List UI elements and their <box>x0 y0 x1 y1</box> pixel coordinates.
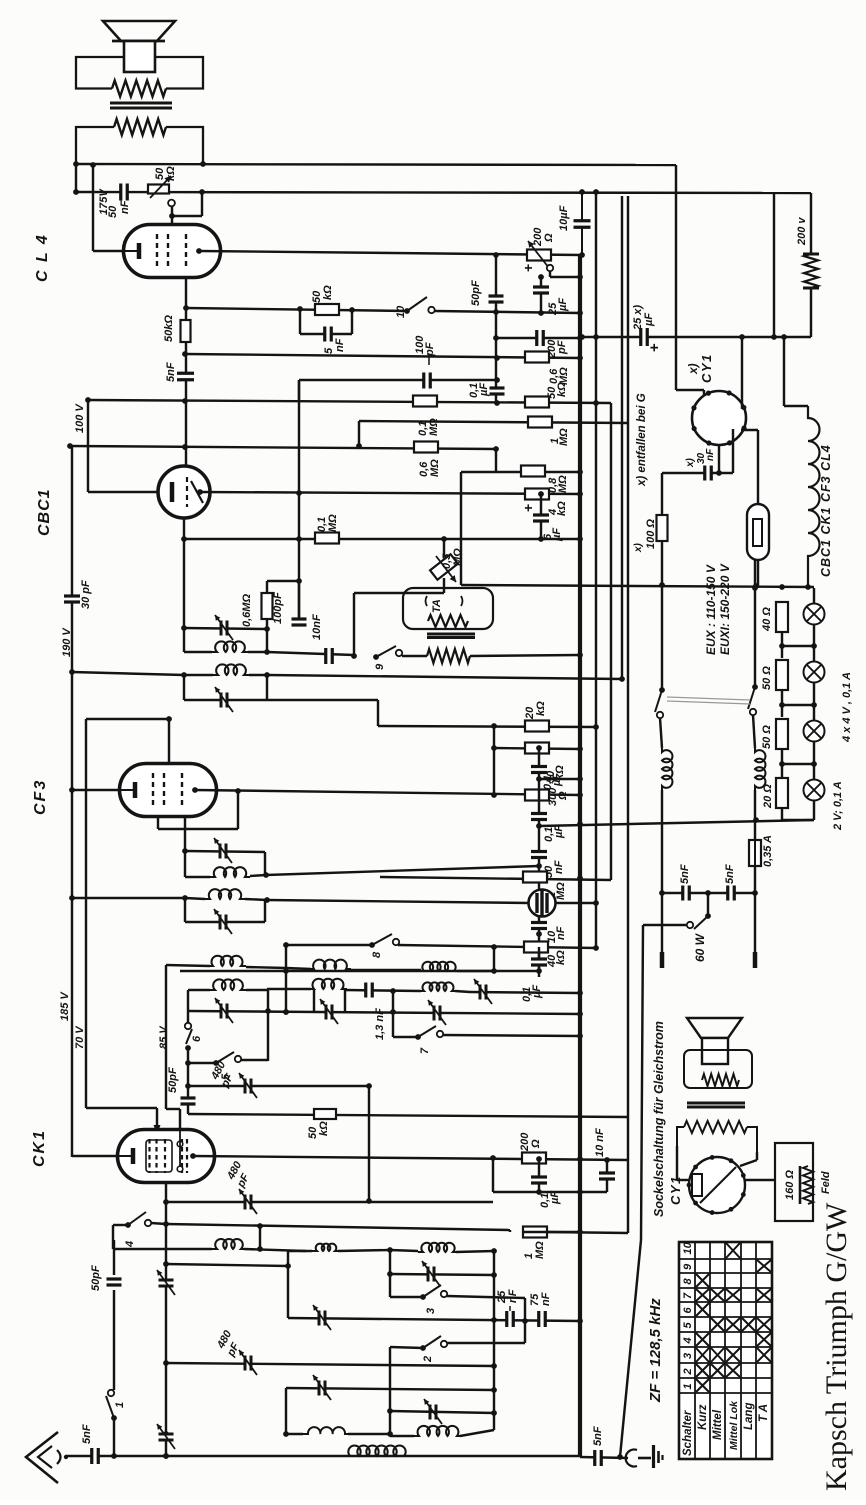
tuning trimmer C2 <box>327 1005 331 1020</box>
resistor 50kOhm cathode <box>181 320 191 342</box>
resistor 100 Ohm x) <box>661 473 663 688</box>
svg-text:nF: nF <box>540 1292 552 1306</box>
switch table frame <box>679 1242 772 1459</box>
potentiometer 0,5MOhm <box>441 536 447 542</box>
svg-text:50 Ω: 50 Ω <box>761 725 773 749</box>
svg-text:5nF: 5nF <box>679 864 691 884</box>
wire 100V x=88 <box>87 400 89 492</box>
row 50k y=1114 <box>188 1114 628 1117</box>
wire bus x=628 <box>627 196 629 1233</box>
row 20k y=726 <box>378 726 596 727</box>
svg-text:kΩ: kΩ <box>165 166 177 181</box>
row y=312 to rail <box>435 311 580 313</box>
svg-text:4 x 4 V , 0,1 A: 4 x 4 V , 0,1 A <box>841 672 853 743</box>
capacitor 50pF antenna <box>113 1290 115 1390</box>
wire line A <box>75 164 77 193</box>
IF transformer 2 bottom tuning cap <box>184 699 267 701</box>
tuning trimmer C3 <box>435 1006 439 1021</box>
capacitor 50pF osc <box>181 1099 196 1103</box>
row y=1411 <box>431 1405 435 1420</box>
svg-text:5nF: 5nF <box>165 362 177 382</box>
capacitor 5nF mains a <box>684 886 688 901</box>
capacitor 50nF <box>531 853 547 857</box>
lamp 1 <box>813 588 815 604</box>
row 190V y=675 <box>72 672 184 675</box>
svg-text:100pF: 100pF <box>272 592 284 624</box>
svg-text:CY1: CY1 <box>699 353 714 383</box>
svg-text:kΩ: kΩ <box>556 501 568 516</box>
svg-text:nF: nF <box>334 338 346 352</box>
potentiometer 200 Ohm <box>527 250 551 261</box>
wire x=286 upper <box>285 945 287 1012</box>
wire CK1 bottom x=166 <box>165 1183 167 1456</box>
wire x=390 lower <box>389 1347 391 1434</box>
svg-text:Feld: Feld <box>820 1171 832 1194</box>
svg-text:0,35 A: 0,35 A <box>762 835 774 867</box>
svg-text:5nF: 5nF <box>81 1424 93 1444</box>
wire CY1 right to 337 <box>741 337 743 409</box>
inset field loop <box>677 1127 757 1152</box>
resistor 300 Ohm <box>525 790 549 801</box>
resistor 0,6MOhm <box>525 352 549 363</box>
svg-text:MΩ: MΩ <box>558 428 570 446</box>
svg-text:5nF: 5nF <box>724 864 736 884</box>
svg-text:µF: µF <box>478 383 490 397</box>
resistor 40 Ohm <box>776 602 788 632</box>
svg-text:70 V: 70 V <box>74 1025 86 1049</box>
row y=779 <box>539 778 580 780</box>
row y=446 0,6M <box>70 446 496 449</box>
IF transformer 1 loop <box>183 628 185 652</box>
row 5nF y=893 <box>662 892 755 894</box>
svg-text:+: + <box>646 343 663 352</box>
pickup TA bubble <box>403 588 493 629</box>
osc coil L2c <box>390 1435 414 1437</box>
wire x=299 bus <box>298 380 300 625</box>
svg-text:10µF: 10µF <box>558 205 570 231</box>
capacitor 10nF ladder <box>531 924 547 928</box>
svg-text:T A: T A <box>758 1404 770 1422</box>
node 200V row y=337 <box>582 336 811 338</box>
resistor winding primary <box>112 81 166 97</box>
svg-text:2: 2 <box>422 1356 434 1363</box>
switch 9 <box>373 654 379 660</box>
row y=1192 <box>493 1191 607 1193</box>
svg-text:50kΩ: 50kΩ <box>163 315 175 342</box>
wire x=461 down to mains row <box>460 472 462 585</box>
wire link from IFT2 <box>267 699 378 701</box>
svg-text:5nF: 5nF <box>592 1426 604 1446</box>
svg-text:MΩ: MΩ <box>558 367 570 385</box>
IF transformer 3 coil B <box>185 898 205 899</box>
tuning capacitor 480pF main <box>246 1356 250 1371</box>
svg-text:nF: nF <box>553 860 565 874</box>
row trimmer y=1274 <box>390 1274 494 1275</box>
wire 200V feed x=774 <box>773 193 775 337</box>
svg-text:100 Ω: 100 Ω <box>645 519 657 549</box>
mains plug b <box>754 893 756 952</box>
tube CL4 <box>124 225 221 278</box>
svg-text:Mittel: Mittel <box>712 1409 724 1440</box>
capacitor 200pF <box>538 330 542 346</box>
mains switch b <box>754 560 756 687</box>
svg-text:pF: pF <box>556 340 568 355</box>
resistor 40kOhm <box>524 942 548 953</box>
svg-text:0,6MΩ: 0,6MΩ <box>241 594 253 627</box>
transformer core <box>110 102 172 105</box>
lamp 2 <box>804 662 825 683</box>
antenna <box>26 1432 58 1483</box>
speaker <box>103 21 175 41</box>
wire cap column x=539 <box>538 748 540 977</box>
resistor 0,6MOhm second <box>414 442 438 453</box>
fuse 0,35A <box>754 812 756 840</box>
wire x=113 to coil <box>112 1225 114 1249</box>
wire bus x=596 <box>595 192 597 948</box>
wire EUX bottom <box>757 560 759 588</box>
capacitor 75nF <box>540 1311 544 1327</box>
antenna coil <box>345 1446 409 1456</box>
resistor 1MOhm osc grid <box>523 1227 547 1238</box>
wire CK1 anode row y=1157 <box>193 1156 628 1160</box>
svg-text:kΩ: kΩ <box>556 382 568 397</box>
svg-text:+: + <box>520 264 536 272</box>
mains switch a <box>661 688 663 692</box>
capacitor 0,1uF a <box>531 768 547 772</box>
row 70V y=1108 <box>86 1107 157 1109</box>
wire x=390 osc <box>389 1250 391 1297</box>
IF transformer 3 bottom tuning cap <box>185 921 265 923</box>
row AVC y=402 <box>88 400 611 403</box>
wire bus x=622 <box>621 196 623 679</box>
row 1M y=421 <box>359 421 628 423</box>
wire x=369 <box>368 1086 370 1201</box>
lamp 4 <box>804 780 825 801</box>
wire line B <box>76 192 811 193</box>
svg-text:MΩ: MΩ <box>534 1241 546 1259</box>
capacitor 10nF osc <box>606 1160 608 1192</box>
svg-text:10 nF: 10 nF <box>594 1128 606 1157</box>
wire CF3 cathode lead <box>72 789 119 791</box>
tube CK1 <box>118 1130 215 1183</box>
IF transformer 3 loop B <box>184 898 186 922</box>
wire x=496 to 0,8M row <box>495 449 497 472</box>
svg-text:8: 8 <box>682 1278 694 1285</box>
row 480pF main y=1363 <box>166 1363 494 1366</box>
band coil A1 <box>166 965 210 966</box>
rung y=646 <box>782 645 814 647</box>
capacitor 0,1uF c <box>538 947 540 971</box>
svg-text:Sockelschaltung für Gleichstro: Sockelschaltung für Gleichstrom <box>652 1021 666 1217</box>
svg-text:160 Ω: 160 Ω <box>784 1170 796 1200</box>
wire CF3 anode row y=792 <box>195 790 580 795</box>
svg-text:50pF: 50pF <box>90 1265 102 1291</box>
capacitor 5nF to ground <box>580 1457 628 1458</box>
inset zigzag primary <box>702 1074 739 1086</box>
svg-text:Ω: Ω <box>543 233 555 243</box>
mains choke b <box>753 715 755 748</box>
capacitor 5nF mains b <box>729 886 733 901</box>
svg-text:Kapsch Triumph G/GW: Kapsch Triumph G/GW <box>820 1202 853 1491</box>
inset wires to socket <box>676 1146 678 1180</box>
svg-text:EUXI: 150-220 V: EUXI: 150-220 V <box>718 563 732 655</box>
row 200pF y=338 <box>496 337 580 339</box>
switch 2 <box>420 1345 426 1351</box>
svg-text:10: 10 <box>395 305 407 318</box>
svg-text:Schalter: Schalter <box>682 1410 694 1456</box>
resistor winding secondary <box>114 119 166 135</box>
IF transformer 3 loop A <box>184 851 186 877</box>
row 40k switch8 y=947 <box>398 945 596 948</box>
gang capacitor section I <box>159 1281 174 1285</box>
switch 60W <box>707 893 709 914</box>
resistor 50 Ohm a <box>776 660 788 690</box>
svg-text:TA: TA <box>431 599 443 613</box>
wire loop x=288 <box>288 1250 312 1252</box>
rung bottom y=820 <box>781 808 783 820</box>
svg-text:3: 3 <box>682 1353 694 1359</box>
svg-text:Kurz: Kurz <box>697 1404 709 1430</box>
capacitor 0,1uF at x=497 <box>490 389 505 393</box>
svg-text:MΩ: MΩ <box>327 514 339 532</box>
inset output loop <box>684 1050 752 1088</box>
tuning trimmer C1 <box>222 1004 226 1019</box>
svg-text:C L 4: C L 4 <box>34 233 51 282</box>
IF transformer 2 coil <box>184 674 213 676</box>
svg-text:Ω: Ω <box>557 791 569 801</box>
mains plug a <box>661 893 663 952</box>
loop C1 <box>187 990 189 1011</box>
resistor 0,8MOhm <box>521 466 545 477</box>
svg-text:CF3: CF3 <box>32 779 49 815</box>
resistor 1MOhm grid <box>528 417 552 428</box>
wire CBC1 cathode lead <box>88 491 158 493</box>
svg-text:+: + <box>520 504 536 512</box>
IF transformer 1 coil <box>184 651 212 653</box>
wire CY1 feed x=676 <box>675 165 677 390</box>
resistor 1MOhm diode load <box>523 872 547 883</box>
capacitor 25nF <box>508 1311 512 1327</box>
resistor 200 Ohm osc <box>522 1153 546 1164</box>
resistor 0,1MOhm <box>413 396 437 407</box>
row 50k y=748 <box>494 748 580 749</box>
svg-text:7: 7 <box>682 1292 694 1299</box>
row 480pF II y=1202 <box>166 1201 493 1203</box>
svg-text:9: 9 <box>682 1263 694 1270</box>
svg-text:nF: nF <box>705 448 716 461</box>
svg-text:5: 5 <box>682 1322 694 1329</box>
wire 175V feed <box>92 165 94 251</box>
svg-text:6: 6 <box>191 1035 203 1042</box>
switch 3 <box>420 1294 426 1300</box>
rung y=705 <box>782 704 814 706</box>
svg-text:1: 1 <box>682 1383 694 1389</box>
wire CY1 top feed <box>676 389 704 391</box>
resistor 0,6MOhm IFT feed <box>267 580 299 582</box>
svg-text:kΩ: kΩ <box>318 1121 330 1136</box>
inset CY1 socket <box>689 1157 745 1213</box>
svg-text:CBC1: CBC1 <box>36 488 53 536</box>
svg-text:50pF: 50pF <box>470 280 482 306</box>
capacitor 30nF x) <box>662 472 733 474</box>
table row lines <box>694 1242 696 1459</box>
wire AVC bus x=611 <box>610 403 612 880</box>
wire CY1 to EUX <box>741 429 758 431</box>
svg-text:20 Ω: 20 Ω <box>762 784 774 809</box>
svg-text:MΩ: MΩ <box>452 548 464 566</box>
svg-text:kΩ: kΩ <box>555 950 567 965</box>
wire CF3 grid <box>168 719 170 765</box>
resistor 50 Ohm b <box>776 719 788 749</box>
wire heater feed x=784 <box>783 337 785 406</box>
tube EUX barretter <box>747 504 769 560</box>
svg-text:x): x) <box>686 363 700 375</box>
trimmer in row B <box>470 992 580 993</box>
wire bank bus x=494 <box>493 1251 495 1430</box>
svg-text:10nF: 10nF <box>311 614 323 640</box>
loop C2 <box>313 989 315 1012</box>
switch 1 <box>113 1418 115 1456</box>
svg-text:50pF: 50pF <box>167 1067 179 1093</box>
lamp 3 <box>804 721 825 742</box>
switch 5 <box>213 1060 219 1066</box>
svg-text:7: 7 <box>419 1047 431 1054</box>
svg-text:µF: µF <box>643 313 655 327</box>
row 1M y=878 <box>380 877 611 880</box>
inset core <box>687 1102 745 1105</box>
band coil A2 <box>286 968 311 969</box>
inset zigzag field <box>684 1121 747 1133</box>
band coil B3 <box>419 982 457 991</box>
trimmer 480pF osc <box>246 1079 250 1094</box>
svg-text:Lang: Lang <box>743 1403 755 1430</box>
resistor 50kOhm parallel <box>297 306 303 312</box>
IF transformer 3 coil A <box>185 876 210 878</box>
row 0,8M y=472 <box>461 471 580 473</box>
switch 10 <box>404 308 410 314</box>
inset speaker <box>687 1018 742 1038</box>
svg-text:ZF = 128,5 kHz: ZF = 128,5 kHz <box>647 1298 664 1403</box>
pickup zigzag <box>428 615 468 627</box>
svg-text:9: 9 <box>374 663 386 670</box>
svg-text:MΩ: MΩ <box>555 882 567 900</box>
switch 8 <box>369 942 375 948</box>
wire left x=72 long <box>71 446 73 1157</box>
trimmer 480pF II <box>246 1195 250 1210</box>
rectifier CY1 <box>692 391 746 445</box>
wire antenna row y=1456 <box>66 1455 580 1457</box>
wire CBC1 to grid row y=539 <box>183 518 185 539</box>
resistor 50kOhm screen <box>525 743 549 754</box>
capacitor 10uF <box>581 192 583 255</box>
svg-text:100 V: 100 V <box>74 403 86 433</box>
row y=1388 <box>286 1388 494 1390</box>
voice coil <box>124 41 155 72</box>
row y=586 mains top <box>461 585 814 587</box>
svg-text:40 Ω: 40 Ω <box>761 607 773 632</box>
row y=1265 <box>166 1264 288 1266</box>
svg-text:8: 8 <box>371 951 383 958</box>
wire CY1 bottom <box>718 445 720 473</box>
wire x=393 <box>392 991 394 1037</box>
volume core bars <box>427 633 475 636</box>
switch 4 <box>125 1222 131 1228</box>
wire CF3 bottom to IFT3 <box>184 817 186 851</box>
svg-text:kΩ: kΩ <box>535 701 547 716</box>
wire ground bus <box>641 925 643 1240</box>
potentiometer disc <box>529 890 556 917</box>
svg-text:85 V: 85 V <box>158 1025 170 1049</box>
capacitor 50pF <box>495 256 497 312</box>
svg-text:3: 3 <box>425 1308 437 1314</box>
row y=653 to volume <box>267 652 354 655</box>
volume potentiometer winding <box>402 655 427 657</box>
svg-text:4: 4 <box>682 1337 694 1344</box>
capacitor 30pF <box>64 597 80 601</box>
wire x=496 down <box>495 312 497 403</box>
svg-text:x): x) <box>633 542 644 553</box>
wire CL4 anode row <box>199 251 582 255</box>
svg-text:Mittel Lok: Mittel Lok <box>728 1400 740 1450</box>
capacitor 0,1uF osc <box>538 1159 540 1192</box>
svg-text:MΩ: MΩ <box>429 459 441 477</box>
row y=875 to 50nF <box>266 866 539 875</box>
svg-text:pF: pF <box>424 342 436 357</box>
IF transformer 3 top tuning cap <box>185 851 265 852</box>
band coil B2 <box>267 988 311 990</box>
row 0,6M y=357 <box>185 354 580 358</box>
svg-text:Ω: Ω <box>530 1139 542 1149</box>
resistor 20 Ohm <box>776 778 788 808</box>
tube CBC1 <box>158 466 210 518</box>
switch 6 <box>185 1023 191 1029</box>
wire CBC1 anode row y=494 <box>200 492 580 494</box>
svg-text:CK1: CK1 <box>31 1129 48 1167</box>
table column lines <box>679 1258 772 1260</box>
svg-text:50 Ω: 50 Ω <box>761 666 773 690</box>
svg-text:60 W: 60 W <box>693 932 707 962</box>
svg-text:CBC1 CK1 CF3 CL4: CBC1 CK1 CF3 CL4 <box>819 444 833 577</box>
capacitor 1,3nF <box>345 990 421 991</box>
band coil A3 <box>419 962 459 971</box>
capacitor 10nF <box>327 648 331 664</box>
svg-text:175V: 175V <box>98 188 110 215</box>
capacitor 6uF electrolytic <box>540 494 542 539</box>
svg-text:10: 10 <box>682 1241 694 1254</box>
resistor 4kOhm <box>525 489 549 500</box>
svg-text:µF: µF <box>557 298 569 312</box>
wire x=260 <box>259 1226 261 1249</box>
trimmer on row 1318 <box>320 1311 324 1326</box>
svg-text:x): x) <box>685 457 696 468</box>
tube CF3 <box>120 764 217 817</box>
svg-text:4: 4 <box>124 1241 136 1248</box>
row y=310 cathode to switch10 <box>186 308 407 311</box>
svg-text:EUX : 110-150 V: EUX : 110-150 V <box>704 564 718 655</box>
inset wires to field resistor <box>745 1179 775 1181</box>
wiper of 50k pot <box>168 200 175 207</box>
capacitor 25uF electrolytic <box>540 277 542 313</box>
osc coil L1a <box>212 1239 246 1249</box>
wire CL4 cathode chain x=186 <box>185 277 187 467</box>
wire grid feed y=719 <box>86 718 169 720</box>
resistor 50kOhm AVC <box>525 397 549 408</box>
capacitor 100pF anode-grid <box>298 581 300 625</box>
IF transformer 2 loop <box>183 675 185 700</box>
svg-text:30 pF: 30 pF <box>80 580 92 609</box>
svg-text:x) entfallen bei G: x) entfallen bei G <box>636 393 648 487</box>
row y=866 <box>536 863 542 869</box>
